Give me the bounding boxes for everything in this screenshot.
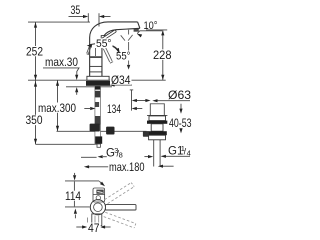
svg-text:114: 114 [65, 189, 81, 203]
svg-text:Ø63: Ø63 [168, 88, 191, 102]
svg-text:Ø34: Ø34 [111, 73, 131, 87]
svg-text:252: 252 [26, 44, 43, 58]
svg-text:228: 228 [153, 48, 172, 62]
svg-text:4: 4 [187, 148, 191, 157]
svg-text:max.30: max.30 [45, 55, 78, 69]
svg-text:max.300: max.300 [38, 101, 76, 115]
svg-text:10°: 10° [144, 20, 158, 32]
svg-text:134: 134 [107, 102, 121, 116]
svg-text:max.180: max.180 [109, 160, 145, 174]
svg-text:55°: 55° [116, 51, 131, 63]
svg-text:40-53: 40-53 [169, 116, 192, 130]
svg-text:35: 35 [71, 3, 81, 17]
svg-text:8: 8 [119, 151, 123, 160]
svg-text:350: 350 [26, 113, 43, 127]
svg-text:47: 47 [88, 221, 100, 235]
svg-text:55°: 55° [96, 38, 112, 50]
